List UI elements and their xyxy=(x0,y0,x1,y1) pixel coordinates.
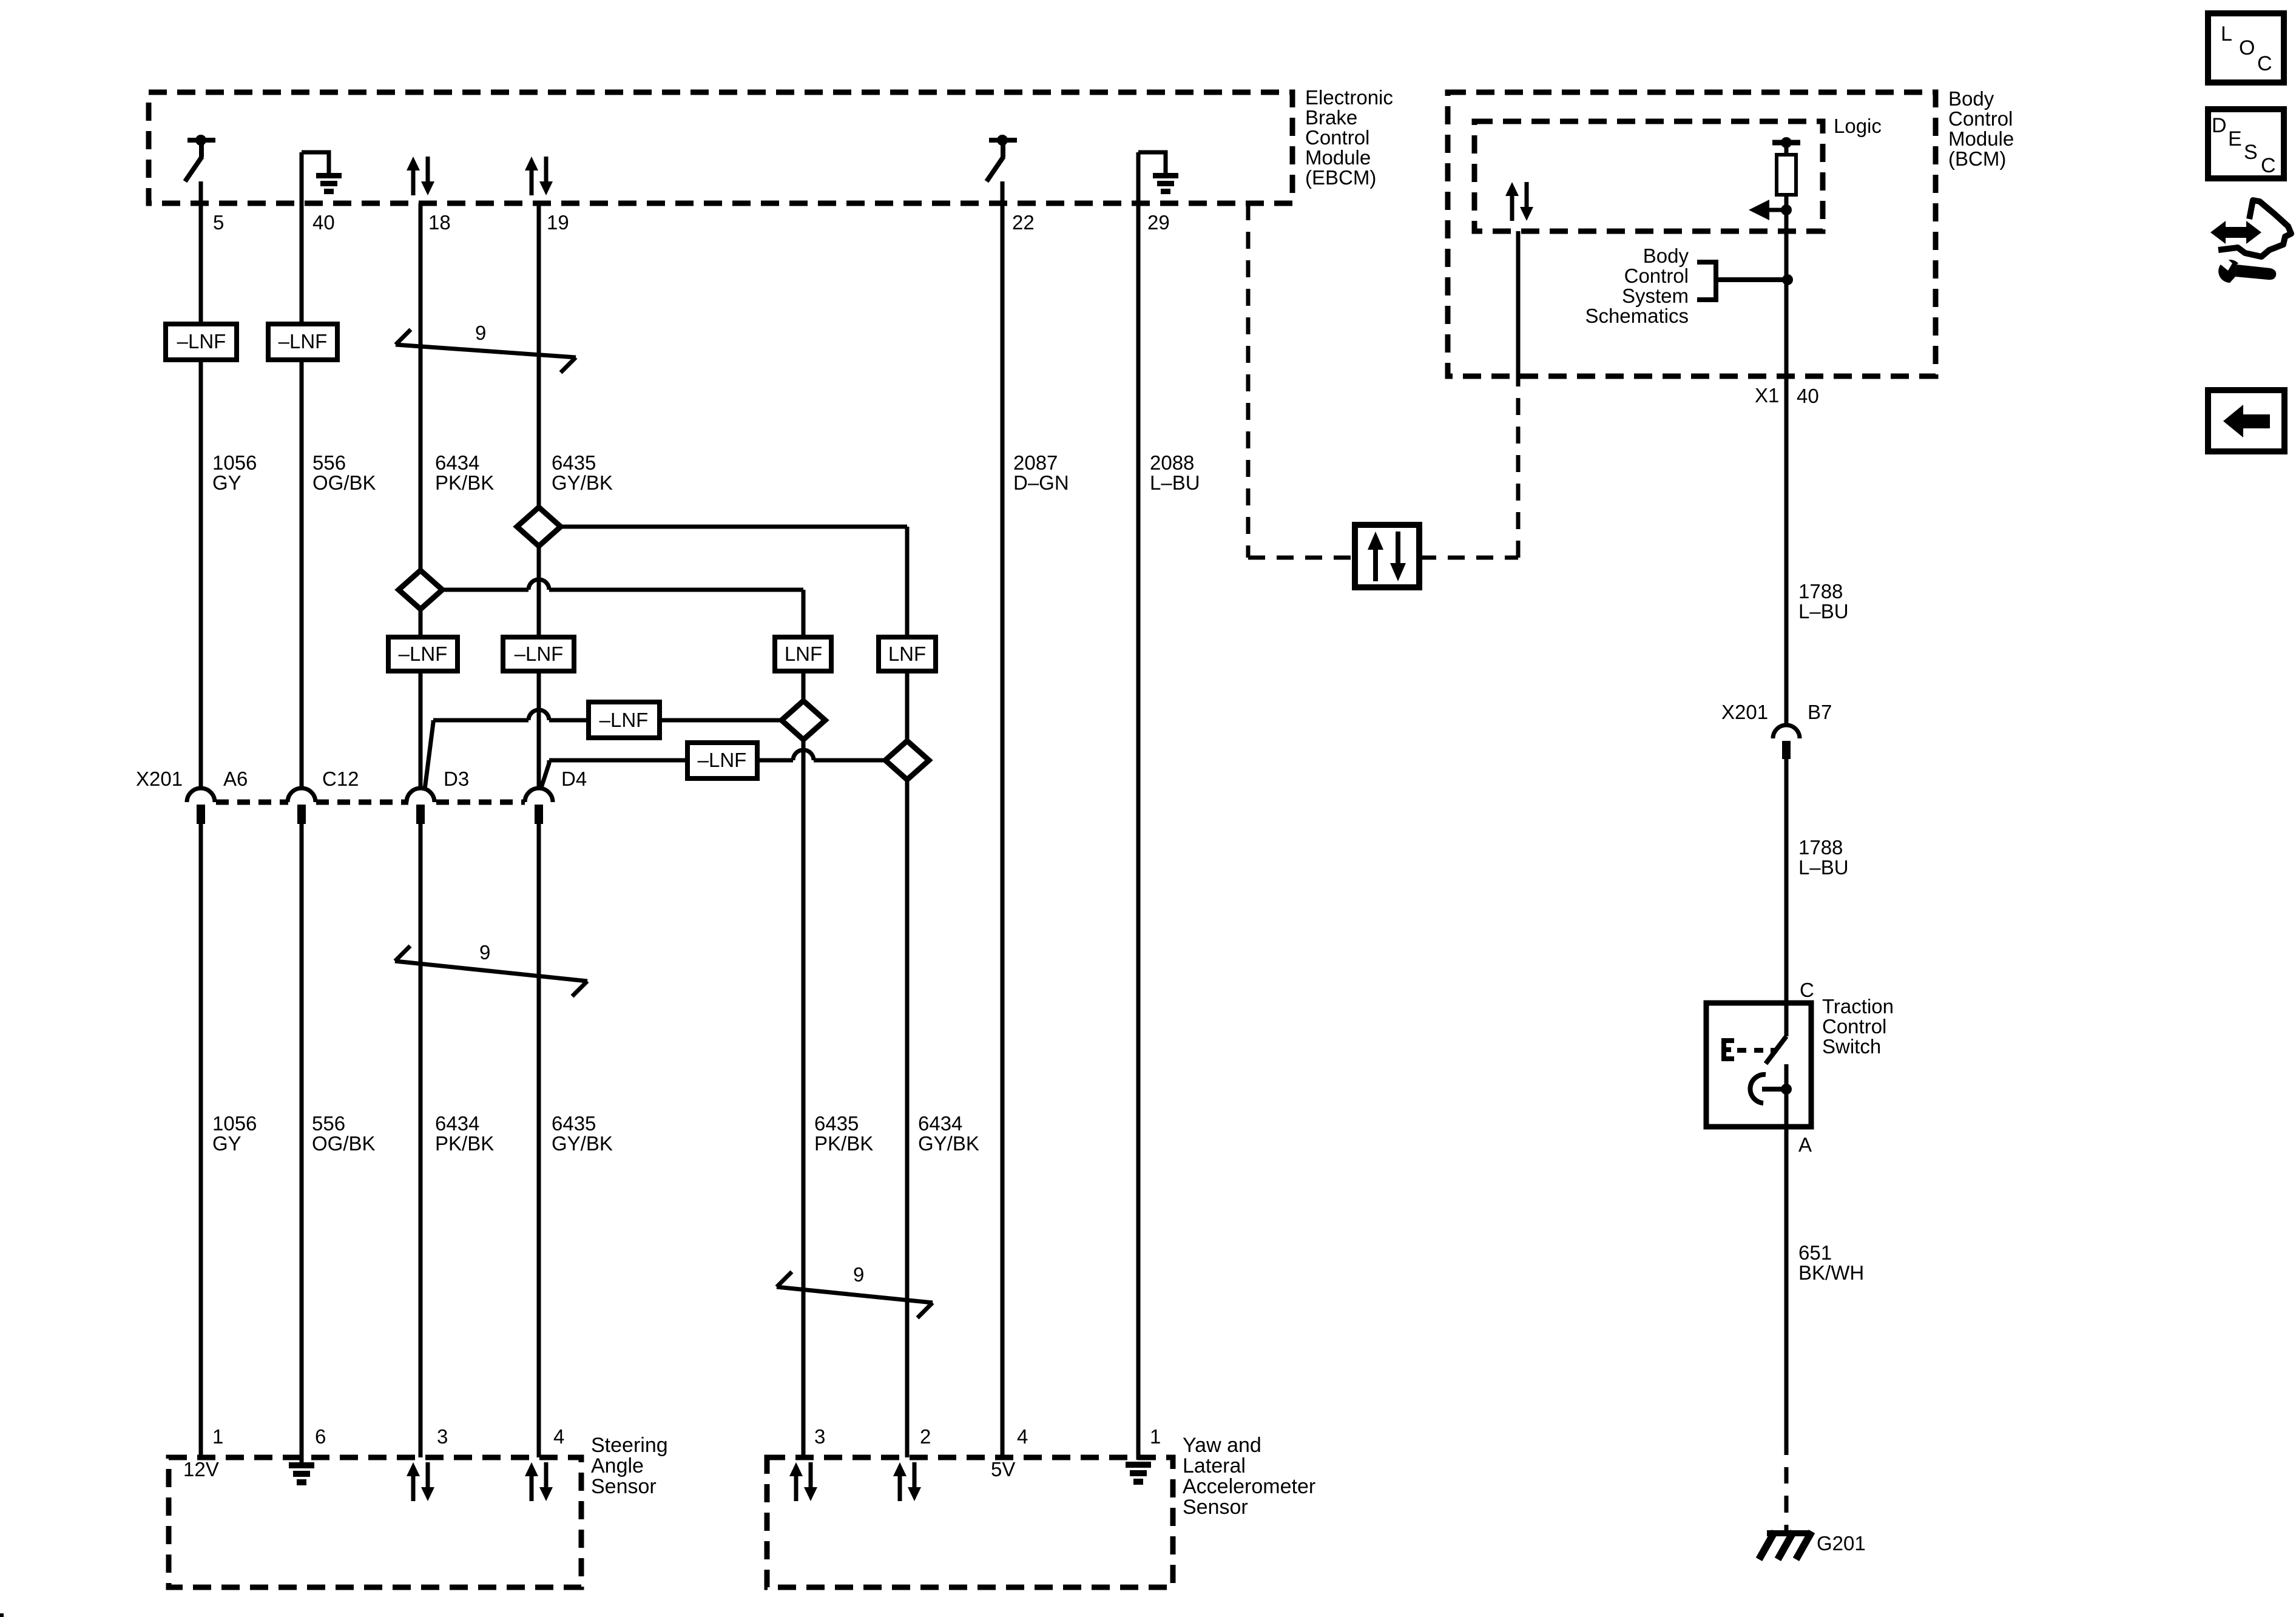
svg-text:PK/BK: PK/BK xyxy=(435,1132,494,1155)
svg-text:L: L xyxy=(2221,22,2232,46)
option box -LNF on branch to connector D3 xyxy=(589,702,660,738)
splice diamond on wire to yaw pin 3 xyxy=(782,701,825,740)
svg-text:6434: 6434 xyxy=(435,451,479,474)
splice diamond on wire to yaw pin 2 xyxy=(885,741,929,780)
svg-text:(EBCM): (EBCM) xyxy=(1305,166,1376,189)
wire 651 BK/WH below switch xyxy=(1784,1127,1789,1455)
switch lower contact wire xyxy=(1784,1064,1789,1127)
svg-text:X201: X201 xyxy=(1721,701,1768,723)
data link box with arrows xyxy=(1355,525,1419,587)
svg-text:19: 19 xyxy=(547,211,569,234)
svg-text:Control: Control xyxy=(1624,265,1689,287)
svg-text:Angle: Angle xyxy=(591,1454,644,1477)
wire 556 OG/BK from EBCM pin 40 (upper) xyxy=(300,152,304,324)
wire dashed to ground G201 xyxy=(1784,1467,1789,1484)
wire below X201 C12 to steering sensor pin 6 xyxy=(300,824,304,1462)
svg-text:3: 3 xyxy=(437,1425,448,1448)
svg-text:3: 3 xyxy=(814,1425,825,1448)
svg-text:LNF: LNF xyxy=(785,643,822,665)
junction bar and dot at top of resistor xyxy=(1772,140,1800,146)
svg-text:System: System xyxy=(1622,285,1689,307)
svg-text:GY: GY xyxy=(212,1132,241,1155)
switch symbol inside EBCM at pin 22 xyxy=(989,138,1017,143)
serial data arrows inside steering sensor pin 3 xyxy=(411,1473,416,1501)
wire horizontal from splice diamond on pin-18 circuit with hop over wire D4 xyxy=(442,588,528,592)
ground symbol inside EBCM at pin 40 xyxy=(302,152,329,174)
svg-text:D: D xyxy=(2212,114,2227,137)
wire below X201 A6 to steering sensor pin 1 xyxy=(199,824,203,1457)
ground symbol inside EBCM at pin 29 xyxy=(1138,152,1166,174)
momentary contact symbol xyxy=(1781,1084,1792,1095)
svg-text:5: 5 xyxy=(213,211,224,234)
svg-text:E: E xyxy=(2228,127,2242,150)
svg-text:Yaw and: Yaw and xyxy=(1183,1434,1261,1457)
connector X201 dashed line xyxy=(216,800,288,805)
svg-text:9: 9 xyxy=(479,941,490,964)
svg-text:Control: Control xyxy=(1305,126,1369,149)
svg-text:Sensor: Sensor xyxy=(1183,1496,1248,1519)
svg-text:Electronic: Electronic xyxy=(1305,86,1393,109)
svg-text:1: 1 xyxy=(1150,1425,1161,1448)
svg-text:–LNF: –LNF xyxy=(279,330,328,353)
svg-text:OG/BK: OG/BK xyxy=(312,471,376,494)
serial data arrows inside yaw sensor pin 2 xyxy=(898,1473,902,1501)
splice diamond on wire 6435 GY/BK (pin 19) xyxy=(517,507,561,546)
svg-text:C12: C12 xyxy=(322,768,359,790)
sensor box Yaw and Lateral Accelerometer Sensor (dashed outline) xyxy=(767,1457,1173,1587)
bus wire dashed up to BCM xyxy=(1516,376,1521,558)
bus wire dashed from EBCM down xyxy=(1246,203,1251,558)
svg-text:GY: GY xyxy=(212,471,241,494)
page mark bottom left xyxy=(0,1613,4,1617)
svg-text:G201: G201 xyxy=(1817,1532,1866,1555)
option box -LNF on wire 6435 (pin 19) xyxy=(503,637,574,671)
svg-text:C: C xyxy=(2257,52,2272,75)
wire horizontal -LNF branch to connector D3 with hop over wire D4 xyxy=(425,720,433,789)
connector terminal X201 C12 xyxy=(288,788,316,802)
svg-text:OG/BK: OG/BK xyxy=(312,1132,376,1155)
wire resistor top stub xyxy=(1784,143,1789,155)
ground symbol inside steering sensor pin 6 xyxy=(289,1462,314,1468)
svg-text:BK/WH: BK/WH xyxy=(1798,1261,1864,1284)
svg-text:18: 18 xyxy=(428,211,451,234)
wire 1788 L-BU below connector xyxy=(1784,759,1789,1003)
sub-box Logic inside BCM (dashed outline) xyxy=(1474,121,1823,231)
svg-text:L–BU: L–BU xyxy=(1798,600,1849,623)
svg-text:–LNF: –LNF xyxy=(177,330,226,353)
svg-text:6435: 6435 xyxy=(814,1112,859,1135)
svg-text:X1: X1 xyxy=(1755,384,1779,407)
ground symbol inside yaw sensor pin 1 xyxy=(1126,1462,1151,1468)
bus wire solid inside BCM xyxy=(1516,231,1521,376)
svg-text:B7: B7 xyxy=(1808,701,1832,723)
bracket for Body Control System Schematics reference xyxy=(1697,262,1716,300)
icon box back arrow xyxy=(2208,390,2284,451)
wire 6434 GY/BK to yaw sensor pin 2 xyxy=(905,527,910,637)
svg-text:6: 6 xyxy=(315,1425,326,1448)
svg-text:556: 556 xyxy=(312,451,346,474)
svg-text:C: C xyxy=(1800,979,1814,1001)
svg-text:40: 40 xyxy=(312,211,335,234)
svg-text:S: S xyxy=(2244,141,2258,164)
svg-text:Sensor: Sensor xyxy=(591,1475,657,1498)
wire 6435 GY/BK from EBCM pin 19 (upper) xyxy=(537,203,541,507)
svg-text:Traction: Traction xyxy=(1822,995,1894,1018)
option box -LNF on wire 556 xyxy=(268,324,337,360)
svg-text:2088: 2088 xyxy=(1150,451,1194,474)
connector terminal X201 D3 xyxy=(407,788,434,802)
arrow pointing left at logic output xyxy=(1767,208,1786,212)
twisted pair symbol 9 (upper, wires 18/19) xyxy=(396,345,576,357)
svg-text:A6: A6 xyxy=(223,768,248,790)
svg-text:Body: Body xyxy=(1643,245,1689,267)
serial data arrows inside EBCM at pin 18 xyxy=(411,167,416,195)
svg-text:O: O xyxy=(2239,36,2255,59)
svg-text:4: 4 xyxy=(1017,1425,1028,1448)
wire 6434 PK/BK from EBCM pin 18 (upper) xyxy=(419,203,423,570)
svg-text:Control: Control xyxy=(1948,107,2013,130)
icon box LOC xyxy=(2208,13,2284,83)
svg-text:4: 4 xyxy=(553,1425,564,1448)
option box LNF on wire to yaw pin 2 xyxy=(879,637,936,671)
svg-text:2: 2 xyxy=(920,1425,931,1448)
option box LNF on wire to yaw pin 3 xyxy=(775,637,831,671)
svg-text:6434: 6434 xyxy=(918,1112,962,1135)
connector terminal X201 A6 xyxy=(187,788,215,802)
svg-text:PK/BK: PK/BK xyxy=(435,471,494,494)
bus wire dashed horizontal from data link box xyxy=(1419,556,1518,560)
svg-text:–LNF: –LNF xyxy=(698,749,747,771)
svg-text:Module: Module xyxy=(1948,127,2014,150)
svg-text:Switch: Switch xyxy=(1822,1035,1881,1058)
svg-text:1056: 1056 xyxy=(212,451,257,474)
svg-text:GY/BK: GY/BK xyxy=(918,1132,979,1155)
svg-text:L–BU: L–BU xyxy=(1798,856,1849,879)
svg-text:Schematics: Schematics xyxy=(1585,305,1689,327)
serial data arrows inside Logic box xyxy=(1510,193,1514,221)
serial data arrows inside yaw sensor pin 3 xyxy=(794,1473,799,1501)
switch lever xyxy=(1766,1036,1786,1064)
svg-text:PK/BK: PK/BK xyxy=(814,1132,873,1155)
svg-text:6435: 6435 xyxy=(552,451,596,474)
svg-text:Lateral: Lateral xyxy=(1183,1454,1246,1477)
twisted pair symbol 9 (lower, yaw wires) xyxy=(777,1287,933,1303)
svg-text:6434: 6434 xyxy=(435,1112,479,1135)
wire below X201 D3 to steering sensor pin 3 xyxy=(419,824,423,1457)
module box BCM (dashed outline) xyxy=(1448,92,1936,376)
svg-text:22: 22 xyxy=(1012,211,1035,234)
svg-text:651: 651 xyxy=(1798,1241,1832,1264)
twisted pair symbol 9 (lower left, steering wires) xyxy=(395,961,587,981)
wire 6435 PK/BK to yaw sensor pin 3 xyxy=(802,590,806,637)
connector terminal X201 B7 xyxy=(1773,725,1800,738)
svg-text:2087: 2087 xyxy=(1013,451,1058,474)
switch button E symbol xyxy=(1721,1038,1726,1061)
connector terminal X201 D4 xyxy=(525,788,553,802)
svg-text:Control: Control xyxy=(1822,1015,1886,1038)
svg-text:40: 40 xyxy=(1797,385,1819,407)
svg-text:–LNF: –LNF xyxy=(515,643,564,665)
svg-text:D4: D4 xyxy=(561,768,587,790)
svg-text:Logic: Logic xyxy=(1834,115,1882,137)
resistor inside Logic box xyxy=(1777,155,1796,195)
svg-text:Accelerometer: Accelerometer xyxy=(1183,1475,1315,1498)
switch symbol inside EBCM at pin 5 xyxy=(187,138,215,143)
svg-text:9: 9 xyxy=(475,322,486,344)
traction control switch box xyxy=(1706,1003,1811,1127)
wire horizontal from splice diamond on pin-19 circuit xyxy=(561,525,907,529)
svg-text:1056: 1056 xyxy=(212,1112,257,1135)
svg-text:Brake: Brake xyxy=(1305,106,1357,129)
junction dot at logic output xyxy=(1781,204,1792,215)
chassis ground G201 xyxy=(1767,1530,1808,1536)
icon box DESC xyxy=(2208,109,2284,178)
svg-text:–LNF: –LNF xyxy=(599,709,649,731)
svg-text:29: 29 xyxy=(1147,211,1170,234)
bus wire dashed horizontal to data link box xyxy=(1248,556,1355,560)
svg-text:L–BU: L–BU xyxy=(1150,471,1200,494)
svg-text:(BCM): (BCM) xyxy=(1948,147,2006,170)
svg-text:LNF: LNF xyxy=(888,643,926,665)
option box -LNF on branch to connector D4 xyxy=(687,743,757,778)
svg-text:1: 1 xyxy=(212,1425,223,1448)
svg-text:GY/BK: GY/BK xyxy=(552,1132,613,1155)
sensor box Steering Angle Sensor (dashed outline) xyxy=(169,1457,581,1587)
svg-text:Steering: Steering xyxy=(591,1434,668,1457)
svg-text:A: A xyxy=(1798,1133,1812,1156)
svg-text:D3: D3 xyxy=(444,768,469,790)
svg-text:9: 9 xyxy=(853,1263,864,1286)
svg-text:1788: 1788 xyxy=(1798,836,1843,859)
svg-text:556: 556 xyxy=(312,1112,345,1135)
svg-text:D–GN: D–GN xyxy=(1013,471,1069,494)
module box EBCM (dashed outline) xyxy=(149,92,1292,203)
svg-text:6435: 6435 xyxy=(552,1112,596,1135)
wire below X201 D4 to steering sensor pin 4 xyxy=(537,824,541,1457)
svg-text:X201: X201 xyxy=(136,768,183,790)
wire from resistor down through BCM xyxy=(1784,195,1789,726)
svg-text:12V: 12V xyxy=(183,1458,219,1480)
option box -LNF on wire 6434 (pin 18) xyxy=(388,637,458,671)
splice diamond on wire 6434 PK/BK (pin 18) xyxy=(399,570,442,609)
option box -LNF on wire 1056 xyxy=(166,324,237,360)
wire horizontal -LNF branch to connector D4 with hop over wire to yaw pin 3 xyxy=(541,760,549,789)
switch wire stub inside xyxy=(1784,1003,1789,1036)
wire 2087 D-GN from EBCM pin 22 to yaw sensor pin 4 xyxy=(1001,181,1005,1457)
svg-text:C: C xyxy=(2261,154,2276,177)
svg-text:–LNF: –LNF xyxy=(399,643,448,665)
svg-text:Module: Module xyxy=(1305,146,1371,169)
svg-text:5V: 5V xyxy=(991,1458,1015,1480)
serial data arrows inside EBCM at pin 19 xyxy=(530,167,534,195)
svg-text:Body: Body xyxy=(1948,87,1994,110)
svg-text:GY/BK: GY/BK xyxy=(552,471,613,494)
wire 2088 L-BU from EBCM pin 29 to yaw sensor pin 1 xyxy=(1136,152,1141,1460)
svg-text:1788: 1788 xyxy=(1798,580,1843,603)
icon hand with wrench xyxy=(2223,227,2249,238)
serial data arrows inside steering sensor pin 4 xyxy=(530,1473,534,1501)
wire 1056 GY from EBCM pin 5 (upper) xyxy=(199,181,203,324)
